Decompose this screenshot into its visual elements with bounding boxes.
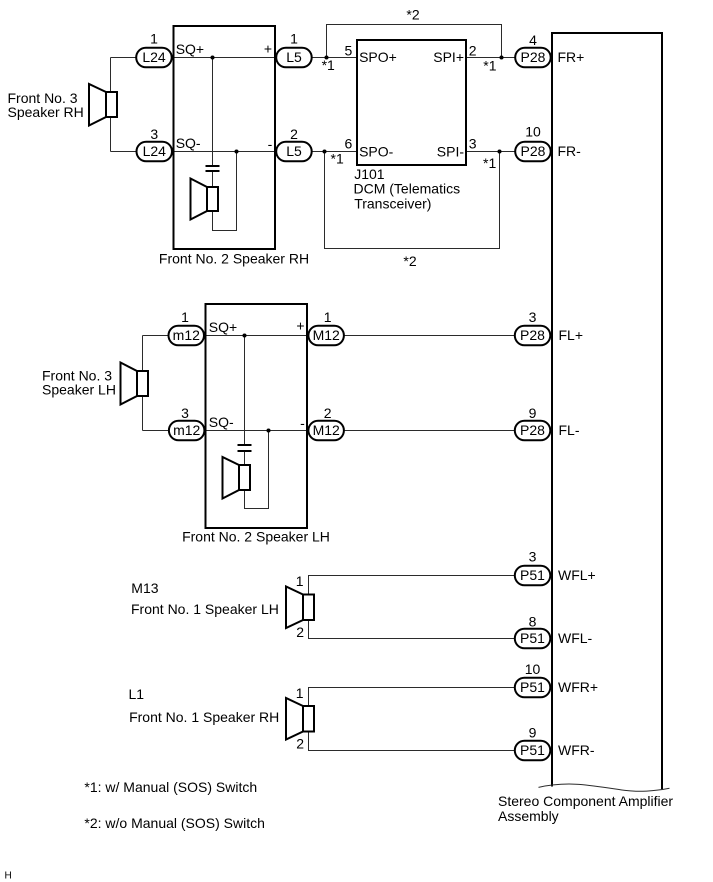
speaker Front No. 1 RH cone bbox=[286, 698, 303, 740]
svg-text:M12: M12 bbox=[313, 422, 340, 438]
svg-text:m12: m12 bbox=[173, 327, 200, 343]
svg-text:H: H bbox=[5, 871, 12, 882]
DCM box J101 bbox=[357, 40, 466, 165]
box Front No. 2 Speaker LH bbox=[206, 304, 308, 528]
svg-text:SQ+: SQ+ bbox=[176, 41, 204, 57]
svg-text:2: 2 bbox=[290, 126, 298, 142]
svg-text:5: 5 bbox=[345, 43, 353, 59]
svg-text:P28: P28 bbox=[521, 143, 546, 159]
svg-text:SQ+: SQ+ bbox=[209, 319, 237, 335]
svg-text:Front No. 2 Speaker RH: Front No. 2 Speaker RH bbox=[159, 250, 309, 266]
svg-text:10: 10 bbox=[525, 661, 541, 677]
wire row A FR+ bbox=[111, 57, 552, 59]
wire row C FL+ bbox=[143, 335, 552, 337]
svg-text:*1: *1 bbox=[483, 155, 496, 171]
connector P51 pin3 bbox=[515, 566, 551, 586]
svg-text:3: 3 bbox=[529, 549, 537, 565]
svg-text:Stereo Component Amplifier: Stereo Component Amplifier bbox=[498, 793, 673, 809]
svg-text:2: 2 bbox=[469, 43, 477, 59]
svg-text:FL+: FL+ bbox=[559, 327, 584, 343]
wire row E WFL+ bbox=[309, 576, 516, 595]
svg-text:2: 2 bbox=[324, 405, 332, 421]
junction dot row A right *1 bbox=[500, 56, 504, 60]
svg-text:+: + bbox=[296, 318, 304, 334]
svg-text:Front No. 1 Speaker RH: Front No. 1 Speaker RH bbox=[129, 709, 279, 725]
connector P28 pin10 bbox=[515, 142, 551, 162]
svg-text:*1: *1 bbox=[322, 57, 335, 73]
connector P28 pin4 bbox=[515, 48, 551, 68]
svg-text:L5: L5 bbox=[286, 143, 302, 159]
svg-text:P51: P51 bbox=[520, 742, 545, 758]
wire row H WFR- bbox=[309, 732, 516, 751]
svg-text:L24: L24 bbox=[143, 143, 167, 159]
junction dot box2 SQ- bbox=[267, 429, 271, 433]
svg-text:2: 2 bbox=[296, 624, 304, 640]
svg-text:SPO+: SPO+ bbox=[359, 49, 397, 65]
svg-text:SQ-: SQ- bbox=[209, 414, 234, 430]
svg-text:1: 1 bbox=[181, 309, 189, 325]
wire box1 capacitor branch upper bbox=[212, 58, 214, 166]
svg-text:*2: *2 bbox=[403, 253, 416, 269]
svg-text:3: 3 bbox=[181, 405, 189, 421]
svg-text:P28: P28 bbox=[520, 422, 545, 438]
wire speaker1 bottom stub bbox=[110, 117, 112, 152]
connector L5 pin1 bbox=[276, 48, 312, 68]
svg-text:*2: w/o Manual (SOS) Switch: *2: w/o Manual (SOS) Switch bbox=[84, 815, 265, 831]
svg-text:*2: *2 bbox=[406, 7, 419, 23]
svg-text:P51: P51 bbox=[520, 567, 545, 583]
connector L24 pin1 bbox=[136, 48, 172, 68]
connector P28 pin3 bbox=[515, 326, 551, 346]
wire box1 speaker return bbox=[213, 152, 237, 231]
speaker Front No. 3 RH driver bbox=[106, 92, 117, 117]
speaker inside box1 cone bbox=[191, 179, 208, 220]
svg-text:FL-: FL- bbox=[559, 422, 580, 438]
svg-text:SQ-: SQ- bbox=[176, 135, 201, 151]
svg-text:P51: P51 bbox=[520, 630, 545, 646]
svg-text:WFL+: WFL+ bbox=[558, 567, 596, 583]
svg-text:+: + bbox=[264, 40, 272, 56]
speaker inside box2 driver bbox=[239, 465, 250, 490]
junction dot row B left *1 bbox=[323, 150, 327, 154]
amplifier box bbox=[552, 33, 662, 789]
svg-text:3: 3 bbox=[150, 126, 158, 142]
svg-text:WFL-: WFL- bbox=[558, 630, 593, 646]
svg-text:9: 9 bbox=[529, 405, 537, 421]
wire box2 speaker return bbox=[245, 431, 269, 509]
svg-text:2: 2 bbox=[296, 736, 304, 752]
svg-text:P51: P51 bbox=[520, 679, 545, 695]
svg-text:SPO-: SPO- bbox=[359, 144, 394, 160]
wire speaker1 top stub bbox=[110, 58, 112, 93]
junction dot box1 SQ+ bbox=[211, 56, 215, 60]
connector P51 pin8 bbox=[515, 629, 551, 649]
capacitor in box1 bbox=[206, 165, 220, 167]
svg-text:1: 1 bbox=[296, 573, 304, 589]
svg-text:SPI-: SPI- bbox=[437, 144, 465, 160]
wire row D FL- bbox=[143, 430, 552, 432]
box Front No. 2 Speaker RH bbox=[174, 26, 276, 249]
speaker Front No. 1 LH driver bbox=[303, 595, 314, 621]
wire row B FR- bbox=[111, 151, 552, 153]
svg-text:Front No. 2 Speaker LH: Front No. 2 Speaker LH bbox=[182, 529, 330, 545]
connector L5 pin2 bbox=[276, 142, 312, 162]
svg-text:-: - bbox=[300, 415, 305, 431]
wire box1 capacitor branch lower bbox=[212, 172, 214, 187]
speaker inside box2 cone bbox=[223, 457, 240, 499]
connector M12 pin2 bbox=[308, 421, 344, 441]
svg-text:*1: *1 bbox=[331, 150, 344, 166]
svg-text:M12: M12 bbox=[313, 327, 340, 343]
svg-text:Speaker RH: Speaker RH bbox=[8, 104, 84, 120]
svg-text:SPI+: SPI+ bbox=[433, 49, 464, 65]
svg-text:*1: w/ Manual (SOS) Switch: *1: w/ Manual (SOS) Switch bbox=[84, 779, 257, 795]
speaker Front No. 3 LH driver bbox=[137, 371, 148, 396]
speaker Front No. 1 LH cone bbox=[286, 587, 303, 629]
svg-text:Speaker LH: Speaker LH bbox=[42, 381, 116, 397]
connector m12 pin3 bbox=[169, 421, 205, 441]
connector M12 pin1 bbox=[308, 326, 344, 346]
svg-text:1: 1 bbox=[296, 685, 304, 701]
connector L24 pin3 bbox=[137, 142, 173, 162]
svg-text:*1: *1 bbox=[483, 58, 496, 74]
svg-text:DCM (Telematics: DCM (Telematics bbox=[354, 181, 461, 197]
junction dot row B right *1 bbox=[498, 150, 502, 154]
amplifier torn edge bbox=[539, 784, 670, 791]
svg-text:1: 1 bbox=[150, 31, 158, 47]
svg-text:WFR+: WFR+ bbox=[558, 679, 598, 695]
speaker Front No. 1 RH driver bbox=[303, 706, 314, 732]
svg-text:3: 3 bbox=[529, 309, 537, 325]
svg-text:Transceiver): Transceiver) bbox=[354, 196, 431, 212]
wire speaker2 top stub bbox=[142, 336, 144, 372]
svg-text:-: - bbox=[268, 136, 273, 152]
wire box2 capacitor branch upper bbox=[244, 336, 246, 445]
svg-text:P28: P28 bbox=[520, 327, 545, 343]
svg-text:P28: P28 bbox=[521, 49, 546, 65]
connector P28 pin9 bbox=[515, 421, 551, 441]
svg-text:WFR-: WFR- bbox=[558, 742, 595, 758]
junction dot row A left *1 bbox=[325, 56, 329, 60]
junction dot box2 SQ+ bbox=[243, 334, 247, 338]
wire speaker2 bottom stub bbox=[142, 396, 144, 431]
svg-text:M13: M13 bbox=[131, 580, 158, 596]
svg-text:L5: L5 bbox=[286, 49, 302, 65]
connector m12 pin1 bbox=[169, 326, 205, 346]
svg-text:1: 1 bbox=[324, 309, 332, 325]
svg-text:Front No. 1 Speaker LH: Front No. 1 Speaker LH bbox=[131, 601, 279, 617]
svg-text:FR-: FR- bbox=[558, 143, 582, 159]
svg-text:Assembly: Assembly bbox=[498, 808, 559, 824]
svg-text:FR+: FR+ bbox=[558, 49, 585, 65]
svg-text:m12: m12 bbox=[173, 422, 200, 438]
wire row G WFR+ bbox=[309, 688, 516, 707]
svg-text:10: 10 bbox=[525, 124, 541, 140]
svg-text:6: 6 bbox=[345, 136, 353, 152]
wire box2 capacitor branch lower bbox=[244, 452, 246, 465]
svg-text:8: 8 bbox=[529, 614, 537, 630]
svg-text:3: 3 bbox=[469, 136, 477, 152]
connector P51 pin9 bbox=[515, 741, 551, 761]
speaker Front No. 3 RH cone bbox=[89, 84, 106, 126]
capacitor in box2 bbox=[238, 444, 252, 446]
speaker inside box1 driver bbox=[207, 187, 218, 211]
connector P51 pin10 bbox=[515, 678, 551, 698]
svg-text:L24: L24 bbox=[142, 49, 166, 65]
junction dot box1 SQ- bbox=[235, 150, 239, 154]
svg-text:4: 4 bbox=[529, 32, 537, 48]
speaker Front No. 3 LH cone bbox=[121, 363, 138, 405]
svg-text:1: 1 bbox=[290, 31, 298, 47]
wire *2 bottom loop bbox=[325, 152, 500, 249]
wire row F WFL- bbox=[309, 620, 516, 639]
svg-text:L1: L1 bbox=[129, 686, 145, 702]
svg-text:9: 9 bbox=[529, 724, 537, 740]
wire *2 top loop bbox=[327, 25, 502, 58]
